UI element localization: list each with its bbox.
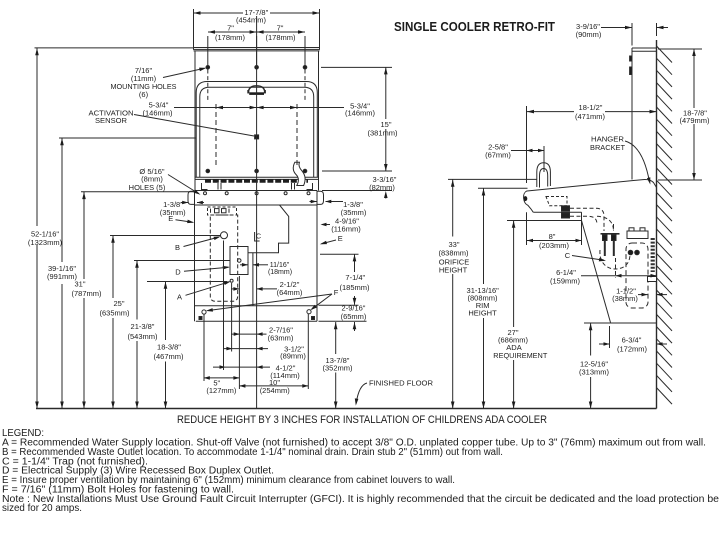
svg-text:7": 7" (277, 24, 284, 33)
svg-text:E: E (168, 214, 173, 223)
svg-text:A: A (177, 293, 182, 302)
svg-text:(254mm): (254mm) (260, 386, 291, 395)
svg-text:(82mm): (82mm) (369, 183, 395, 192)
svg-text:(471mm): (471mm) (575, 112, 606, 121)
wire: stream guard hook (293, 162, 305, 185)
svg-text:(6): (6) (139, 90, 149, 99)
svg-text:(67mm): (67mm) (485, 150, 511, 159)
dim 18-1/2 (527, 111, 574, 113)
wire: ada underside extension (507, 220, 582, 222)
svg-text:(90mm): (90mm) (576, 30, 602, 39)
dim 11/16 (240, 264, 248, 266)
wire: drain dashed box (208, 207, 237, 215)
svg-text:(65mm): (65mm) (341, 312, 367, 321)
dim 6-3/4 (609, 326, 611, 348)
svg-text:(146mm): (146mm) (142, 108, 173, 117)
dim 13-7/8 (335, 322, 337, 354)
svg-text:7-1/4": 7-1/4" (345, 273, 365, 282)
svg-text:(203mm): (203mm) (539, 241, 570, 250)
wire: extension drop lines below cabinet (203, 314, 205, 381)
dim 10in (239, 385, 308, 387)
svg-text:(787mm): (787mm) (71, 289, 102, 298)
svg-text:B: B (175, 243, 180, 252)
dim 4-1/2 (213, 366, 270, 368)
dim 3-9/16 top (631, 23, 633, 46)
svg-text:BRACKET: BRACKET (590, 143, 625, 152)
wire: left extension lines (35, 47, 194, 49)
wire: conduit stepped line (248, 205, 289, 306)
node: activation sensor target (255, 135, 259, 139)
svg-text:(543mm): (543mm) (127, 332, 158, 341)
wire: basin underside (533, 211, 581, 213)
svg-text:(64mm): (64mm) (277, 288, 303, 297)
wire: cabinet top rail (195, 190, 318, 192)
svg-text:(18mm): (18mm) (268, 269, 292, 276)
dim 31 (83, 192, 85, 279)
svg-text:D: D (175, 268, 181, 277)
svg-text:7": 7" (227, 24, 234, 33)
svg-text:18-3/8": 18-3/8" (157, 343, 181, 352)
wire: shutoff valves (601, 233, 611, 235)
wire: upper shell sides (194, 51, 196, 191)
svg-text:(1323mm): (1323mm) (28, 238, 63, 247)
svg-text:(159mm): (159mm) (550, 276, 581, 285)
wire: basin bottom edge (195, 176, 319, 178)
node: rail holes (5) (204, 192, 207, 195)
wire: basin recess outline (196, 82, 317, 178)
wire: basin front extension line (526, 106, 528, 183)
wire: orifice extension line (448, 178, 537, 180)
svg-text:(89mm): (89mm) (280, 352, 306, 361)
wire: supply piping dashed (570, 208, 604, 231)
svg-text:(63mm): (63mm) (268, 333, 294, 342)
wire: hole centerlines dashed (215, 104, 217, 168)
svg-text:C: C (256, 232, 262, 241)
svg-text:REQUIREMENT: REQUIREMENT (493, 351, 547, 360)
dim 3-3/16 (322, 190, 392, 192)
wire: wall line (656, 40, 658, 409)
dim 17-7/8in top width (193, 9, 195, 47)
svg-text:(635mm): (635mm) (99, 309, 130, 318)
dim 15in (321, 66, 392, 68)
node D: electrical box (230, 247, 248, 275)
dim 27 ada requirement (513, 221, 515, 328)
node: lower mounting holes row (206, 169, 210, 173)
svg-text:(352mm): (352mm) (322, 364, 353, 373)
svg-text:(172mm): (172mm) (617, 345, 648, 354)
wire: louver strip (205, 179, 308, 182)
node: bolt holes F (202, 310, 206, 314)
wire: bottom tabs (202, 183, 208, 190)
svg-text:(991mm): (991mm) (47, 272, 78, 281)
dim 18-7/8 right (658, 48, 702, 50)
svg-text:HEIGHT: HEIGHT (439, 265, 468, 274)
svg-text:6-3/4": 6-3/4" (622, 336, 642, 345)
svg-text:(185mm): (185mm) (339, 283, 370, 292)
wire: recessed wall strip (651, 238, 655, 272)
wire: rim extension line (478, 187, 528, 189)
wire: cabinet sides (194, 191, 196, 322)
dim 31-13/16 rim height (483, 188, 485, 284)
svg-text:(838mm): (838mm) (438, 249, 469, 258)
svg-text:SENSOR: SENSOR (95, 116, 128, 125)
svg-text:(381mm): (381mm) (367, 128, 398, 137)
wire: cabinet bottom and skirt (195, 305, 318, 307)
svg-text:Note : New Installations Must: Note : New Installations Must Use Ground… (2, 494, 720, 505)
svg-text:(454mm): (454mm) (236, 15, 267, 24)
wire: wall hatching (657, 46, 673, 63)
node: centerline front view (256, 16, 258, 409)
wire: right side bump (317, 191, 324, 204)
node: upper mounting holes row (206, 66, 210, 70)
svg-text:31": 31" (74, 280, 85, 289)
svg-text:HEIGHT: HEIGHT (468, 309, 497, 318)
svg-text:REDUCE HEIGHT BY 3 INCHES FOR: REDUCE HEIGHT BY 3 INCHES FOR INSTALLATI… (177, 414, 547, 426)
dim 7in hole spacing pair (208, 31, 305, 33)
node A: water supply (230, 279, 233, 282)
dim 18-3/8 (165, 282, 167, 341)
node B: waste outlet circle (221, 232, 228, 239)
svg-text:(38mm): (38mm) (612, 294, 638, 303)
dim 8in (526, 212, 528, 245)
dim 7-1/4 right side (320, 253, 359, 255)
svg-text:(313mm): (313mm) (579, 367, 610, 376)
svg-text:(178mm): (178mm) (265, 33, 296, 42)
dim 2-1/2 (231, 288, 239, 290)
wire: top hanger plate front view (194, 48, 320, 50)
dim 2-7/16 (231, 333, 267, 335)
svg-text:F: F (334, 288, 339, 297)
svg-text:(479mm): (479mm) (679, 116, 710, 125)
svg-text:FINISHED FLOOR: FINISHED FLOOR (369, 379, 434, 388)
wire: lower panel diagonal (582, 221, 611, 323)
wire: floor line (36, 408, 657, 410)
wire: hanger bracket side (631, 48, 633, 180)
wire: louver panel dashed (210, 215, 237, 301)
wire: trap u-bend dashed (600, 250, 630, 269)
dim 12-5/16 (584, 322, 597, 324)
wire: bubbler side view (537, 163, 551, 187)
wire: drain strainer dashed (546, 197, 567, 206)
wire: bubbler front (248, 86, 265, 93)
svg-text:HOLES (5): HOLES (5) (129, 183, 166, 192)
dim 33 orifice height (452, 179, 454, 236)
svg-text:25": 25" (113, 299, 124, 308)
dim 39-1/16 (61, 138, 63, 262)
wire: basin profile side (527, 180, 657, 191)
dim 5in (204, 377, 240, 379)
svg-text:(116mm): (116mm) (331, 225, 361, 234)
dim 25 (112, 236, 114, 299)
svg-text:(178mm): (178mm) (215, 33, 246, 42)
svg-text:8": 8" (549, 232, 556, 241)
wire: left side bump (188, 191, 195, 204)
dim 21-3/8 (136, 261, 138, 320)
dim 52-1/16 left (36, 48, 38, 226)
svg-text:(146mm): (146mm) (345, 109, 376, 118)
svg-text:E: E (338, 234, 343, 243)
svg-text:(467mm): (467mm) (153, 352, 184, 361)
svg-text:(127mm): (127mm) (206, 386, 237, 395)
svg-text:SINGLE COOLER RETRO-FIT: SINGLE COOLER RETRO-FIT (394, 19, 555, 34)
svg-text:18-1/2": 18-1/2" (579, 103, 603, 112)
svg-text:sized for 20 amps.: sized for 20 amps. (2, 503, 82, 514)
svg-text:33": 33" (448, 240, 459, 249)
dim 3-1/2 (223, 348, 268, 350)
svg-text:C: C (565, 251, 571, 260)
wire: waste outlet box (626, 243, 648, 308)
wire: bottom shelf (591, 322, 657, 324)
svg-text:21-3/8": 21-3/8" (131, 322, 155, 331)
node: sensor side dot (524, 196, 528, 201)
